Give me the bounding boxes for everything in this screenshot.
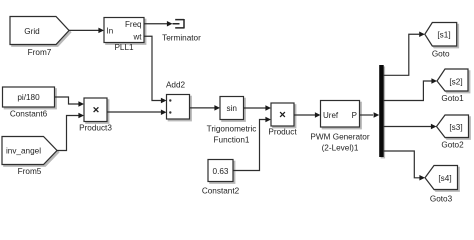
mux bar (Demux) [379, 65, 385, 158]
wire Product3 -> Add2 in2 [107, 109, 167, 115]
From block From5 (inv_angel tag) [2, 137, 59, 176]
svg-text:Goto2: Goto2 [441, 141, 464, 150]
sum Add2 [166, 80, 191, 121]
wire PLL1 Freq -> Terminator [144, 21, 173, 27]
svg-text:PLL1: PLL1 [114, 43, 134, 52]
svg-text:Freq: Freq [125, 20, 141, 29]
svg-text:Constant2: Constant2 [202, 187, 240, 196]
svg-text:(2-Level)1: (2-Level)1 [322, 143, 359, 152]
wire From7 -> PLL1 [69, 28, 104, 34]
svg-text:Goto: Goto [432, 50, 450, 59]
Goto block Goto3 ([s4]) [425, 166, 459, 204]
product Product [268, 103, 297, 137]
wire Constant6 -> Product3 in1 [55, 97, 85, 107]
wire Product -> PWM Generator [294, 112, 321, 118]
svg-text:From5: From5 [18, 167, 42, 176]
svg-text:0.63: 0.63 [213, 167, 229, 176]
svg-text:Goto1: Goto1 [441, 94, 464, 103]
svg-text:pi/180: pi/180 [17, 93, 40, 102]
svg-text:From7: From7 [28, 48, 52, 57]
svg-text:[s2]: [s2] [449, 77, 462, 86]
svg-text:sin: sin [226, 104, 237, 113]
Goto block Goto2 ([s3]) [437, 115, 471, 150]
block PLL1 [104, 18, 146, 53]
wire PWM Generator -> Mux bar [360, 112, 380, 118]
wire Demux out3 -> Goto2 [384, 124, 437, 130]
wire Trigonometric Function1 -> Product in1 [244, 105, 272, 111]
svg-text:[s3]: [s3] [449, 123, 462, 132]
svg-text:[s1]: [s1] [437, 30, 450, 39]
Goto block Goto1 ([s2]) [437, 69, 470, 103]
wire Add2 -> Trigonometric Function1 [190, 105, 221, 111]
constant Constant2 (0.63) [202, 160, 240, 196]
svg-text:Product: Product [268, 128, 297, 137]
constant Constant6 (pi/180) [3, 87, 57, 119]
wire Constant2 -> Product in2 [233, 117, 271, 171]
wire PLL1 wt -> Add2 in1 [144, 36, 167, 103]
svg-text:Constant6: Constant6 [10, 110, 48, 119]
wire Demux out4 -> Goto3 [384, 151, 425, 181]
wire From5 -> Product3 in2 [57, 113, 84, 151]
svg-text:Trigonometric: Trigonometric [207, 125, 257, 134]
block Terminator [162, 19, 201, 43]
svg-text:Add2: Add2 [166, 80, 186, 89]
svg-text:PWM Generator: PWM Generator [310, 133, 369, 142]
svg-text:P: P [352, 111, 357, 120]
svg-text:In: In [107, 27, 114, 36]
wire Demux out2 -> Goto1 [384, 78, 437, 100]
svg-text:[s4]: [s4] [438, 174, 451, 183]
svg-text:Goto3: Goto3 [430, 194, 453, 203]
block PWM Generator (2-Level)1 [310, 101, 369, 153]
block Trigonometric Function1 (sin) [207, 97, 257, 145]
svg-text:Grid: Grid [24, 27, 40, 36]
svg-text:Function1: Function1 [214, 136, 250, 145]
Goto block Goto ([s1]) [425, 23, 459, 59]
svg-text:Terminator: Terminator [162, 34, 201, 43]
svg-text:Product3: Product3 [79, 124, 112, 133]
wire Demux out1 -> Goto [384, 32, 425, 76]
svg-text:wt: wt [133, 33, 143, 42]
svg-text:inv_angel: inv_angel [6, 147, 41, 156]
svg-text:Uref: Uref [323, 111, 339, 120]
From block From7 (Grid tag) [10, 17, 71, 57]
product Product3 [79, 98, 112, 133]
